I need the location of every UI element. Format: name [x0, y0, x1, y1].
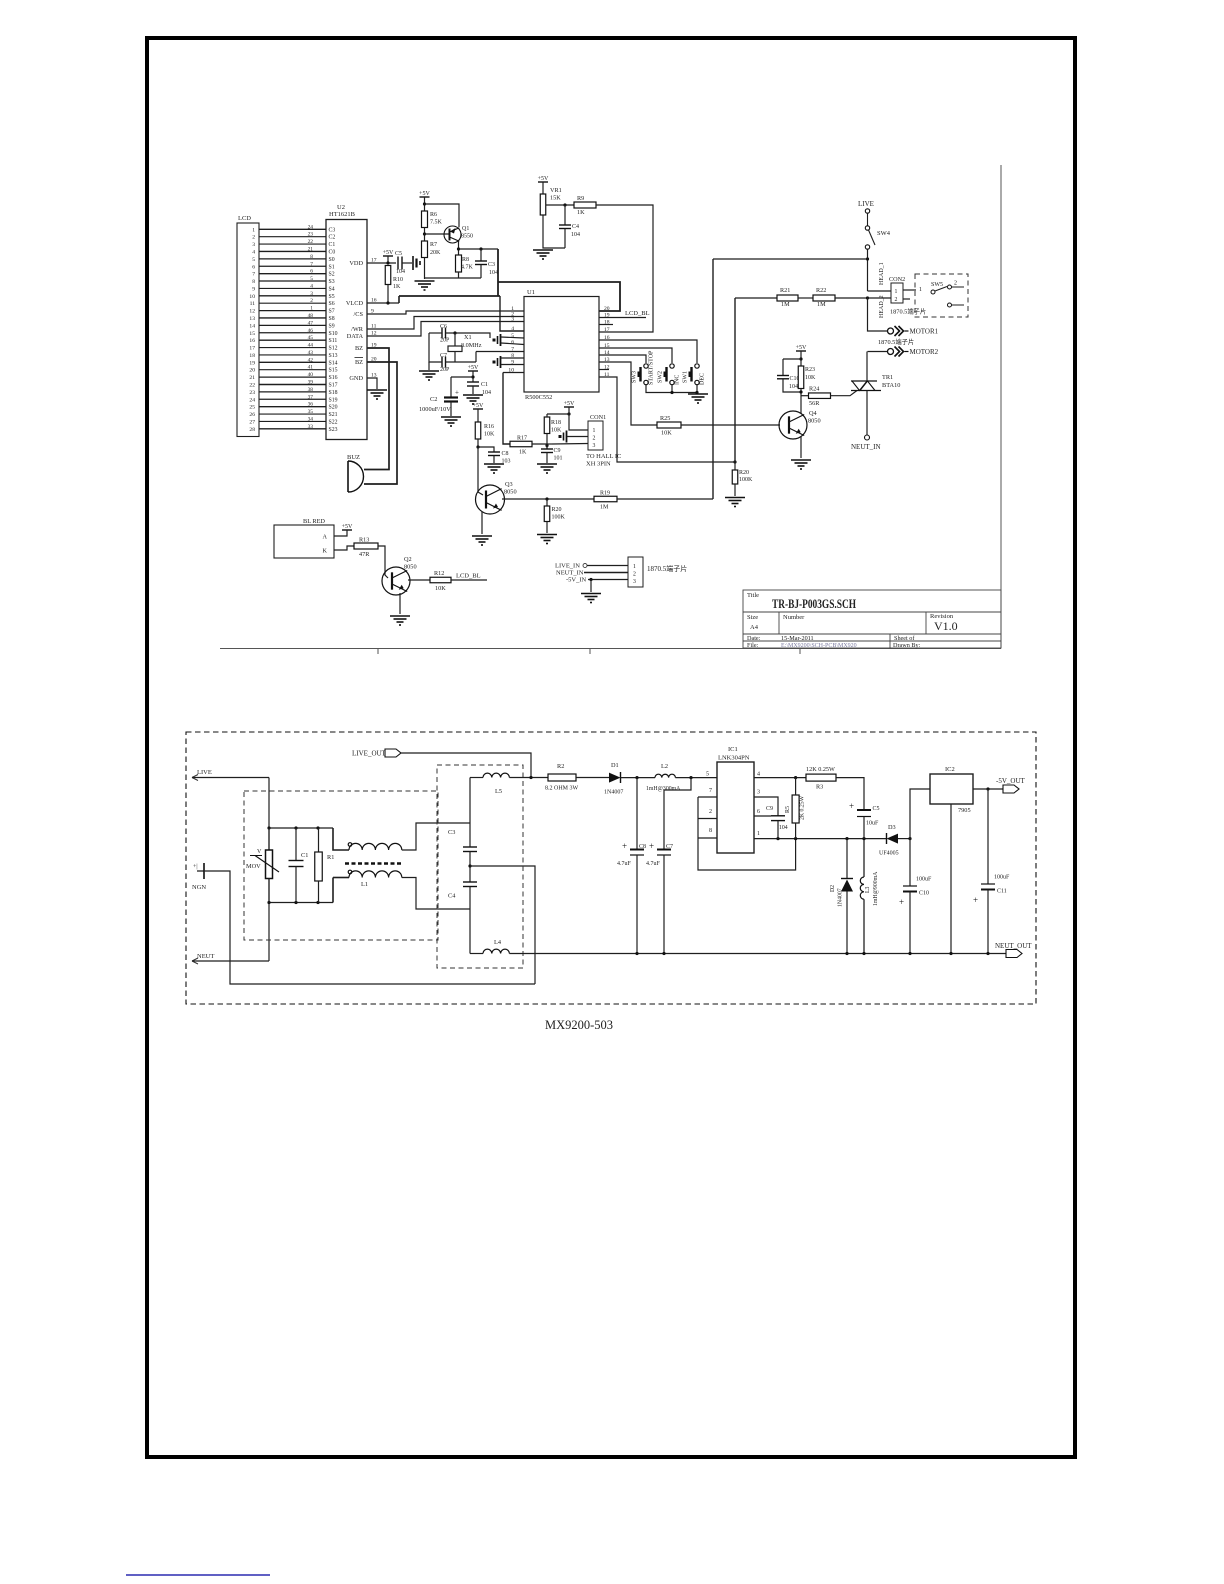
- wire NEUT_IN: [584, 572, 628, 574]
- svg-text:3: 3: [593, 443, 596, 449]
- wire Q1 out node: [459, 248, 499, 250]
- wire -5V_IN: [588, 579, 628, 581]
- svg-text:TR1: TR1: [882, 374, 893, 381]
- svg-text:MOTOR2: MOTOR2: [910, 348, 939, 356]
- terminal MOTOR1: [888, 326, 939, 336]
- wire C4 top: [564, 205, 566, 225]
- svg-text:24: 24: [308, 224, 314, 230]
- svg-text:S16: S16: [329, 375, 338, 381]
- svg-text:XH 3PIN: XH 3PIN: [586, 461, 611, 468]
- LCD pin 9 wire: [259, 287, 326, 289]
- svg-text:1K: 1K: [577, 209, 585, 216]
- resistor: [422, 241, 428, 258]
- wire: [402, 262, 412, 264]
- svg-text:100uF: 100uF: [916, 877, 932, 883]
- svg-text:5: 5: [310, 276, 313, 282]
- svg-text:D1: D1: [611, 762, 619, 769]
- svg-text:S19: S19: [329, 397, 338, 403]
- wire: [795, 778, 797, 795]
- svg-text:14: 14: [249, 323, 255, 329]
- resistor: [475, 422, 481, 439]
- wire switch common: [646, 385, 698, 393]
- wire: [493, 456, 495, 464]
- LCD pin 4 wire: [259, 250, 326, 252]
- svg-text:S23: S23: [329, 427, 338, 433]
- svg-text:SW2: SW2: [658, 371, 664, 383]
- svg-text:LCD: LCD: [238, 215, 251, 222]
- svg-text:11: 11: [250, 301, 256, 307]
- svg-text:39: 39: [308, 379, 314, 385]
- wire Q3 emitter: [481, 512, 483, 534]
- wire VR1 tap: [546, 204, 575, 206]
- svg-text:2: 2: [709, 809, 712, 815]
- +5V supply VR1: [538, 176, 549, 182]
- svg-text:File:: File:: [747, 642, 759, 649]
- wire R22 to CON2: [835, 297, 868, 299]
- svg-text:22: 22: [249, 382, 255, 388]
- svg-text:UF4005: UF4005: [879, 851, 899, 857]
- LCD pin 3 wire: [259, 243, 326, 245]
- svg-text:15: 15: [249, 331, 255, 337]
- svg-text:R20: R20: [739, 470, 749, 476]
- svg-text:S1: S1: [329, 264, 335, 270]
- LCD pin 23 wire: [259, 391, 326, 393]
- LCD pin 17 wire: [259, 347, 326, 349]
- +5V supply Q4: [796, 345, 807, 351]
- svg-text:S20: S20: [329, 405, 338, 411]
- svg-text:MOTOR1: MOTOR1: [910, 328, 939, 336]
- svg-text:1: 1: [633, 564, 636, 570]
- wire: [318, 881, 320, 903]
- svg-text:BTA10: BTA10: [882, 382, 900, 389]
- svg-text:S11: S11: [329, 338, 338, 344]
- wire C3 bottom: [480, 265, 482, 279]
- wire VLCD: [367, 302, 399, 304]
- svg-text:LIVE: LIVE: [197, 769, 212, 776]
- crystal X1 8.0MHz: [448, 346, 462, 352]
- svg-text:NGN: NGN: [192, 884, 206, 891]
- wire: [387, 256, 389, 263]
- svg-text:4.7uF: 4.7uF: [646, 861, 661, 867]
- ground switches: [688, 394, 708, 403]
- ground C1: [463, 395, 483, 404]
- LCD pin 20 wire: [259, 369, 326, 371]
- wire riser LIVE switch net: [712, 259, 714, 499]
- terminal NGN: [193, 863, 204, 879]
- wire LIVE riser: [268, 778, 270, 962]
- +5V supply VDD: [383, 250, 394, 256]
- wire: [898, 838, 910, 840]
- svg-text:7: 7: [310, 261, 313, 267]
- svg-text:1: 1: [919, 287, 922, 293]
- diode D3 UF4005: [887, 833, 899, 844]
- ground C8: [484, 464, 504, 473]
- wire R8 C3 return: [425, 277, 482, 279]
- wire: [621, 777, 656, 779]
- svg-text:10: 10: [249, 294, 255, 300]
- svg-text:C6: C6: [440, 324, 447, 330]
- resistor: [354, 543, 378, 549]
- wire U1 pin11 trunk: [599, 377, 735, 462]
- sheet border tick: [589, 649, 591, 655]
- svg-text:S3: S3: [329, 279, 335, 285]
- svg-text:+: +: [622, 841, 627, 851]
- svg-text:47R: 47R: [359, 551, 370, 558]
- connector LCD: [237, 223, 259, 437]
- svg-text:28: 28: [249, 427, 255, 433]
- wire to L1 bottom: [333, 877, 349, 879]
- ground R20b: [725, 498, 745, 507]
- sheet border tick: [377, 649, 379, 655]
- ground -5V_IN: [581, 594, 601, 603]
- XTAL2 pin symbol: [493, 356, 501, 368]
- LCD pin 14 wire: [259, 324, 326, 326]
- capacitor: [442, 357, 446, 368]
- wire: [472, 386, 474, 394]
- wire IC1 pin2: [698, 818, 717, 820]
- wire: [846, 892, 848, 954]
- wire to MOTOR1: [868, 299, 888, 332]
- svg-text:R23: R23: [805, 367, 815, 373]
- arrow NEUT: [192, 958, 198, 964]
- wire: [636, 855, 638, 954]
- svg-text:36: 36: [308, 402, 314, 408]
- wire NGN frame: [204, 871, 535, 984]
- svg-text:12: 12: [249, 309, 255, 315]
- +5V supply R16: [473, 403, 484, 409]
- svg-text:56R: 56R: [809, 400, 820, 407]
- svg-text:4: 4: [252, 249, 255, 255]
- wire feedback loop: [698, 797, 796, 870]
- svg-text:8: 8: [252, 279, 255, 285]
- svg-text:+5V: +5V: [342, 524, 353, 530]
- wire: [532, 444, 547, 449]
- svg-text:HEAD_1: HEAD_1: [879, 262, 885, 285]
- svg-text:R22: R22: [816, 287, 826, 294]
- capacitor C5 10uF: [849, 801, 871, 817]
- svg-text:+5V: +5V: [473, 403, 484, 409]
- title block: [743, 590, 1001, 648]
- wire: [332, 878, 334, 903]
- svg-text:LNK304PN: LNK304PN: [718, 755, 750, 762]
- svg-text:LIVE: LIVE: [858, 200, 874, 208]
- wire CON1 pin2: [567, 436, 588, 438]
- svg-text:L3: L3: [865, 886, 871, 893]
- svg-text:C7: C7: [666, 844, 673, 850]
- svg-text:4: 4: [757, 772, 760, 778]
- svg-text:Q2: Q2: [404, 556, 412, 563]
- wire SW4 to riser: [713, 258, 868, 260]
- wire: [546, 414, 548, 417]
- ground Q3: [472, 536, 492, 545]
- wire: [470, 777, 483, 779]
- svg-text:2: 2: [310, 298, 313, 304]
- svg-text:8.2 OHM 3W: 8.2 OHM 3W: [545, 786, 579, 792]
- wire CON2 pin2: [868, 297, 892, 299]
- capacitor: [559, 225, 571, 229]
- svg-text:33: 33: [308, 424, 314, 430]
- svg-text:C1: C1: [329, 242, 336, 248]
- LCD pin 8 wire: [259, 280, 326, 282]
- svg-text:43: 43: [308, 350, 314, 356]
- svg-text:104: 104: [396, 269, 405, 275]
- LCD pin 18 wire: [259, 354, 326, 356]
- svg-text:1M: 1M: [600, 505, 609, 511]
- svg-text:101: 101: [554, 456, 563, 462]
- wire to U1 pin4: [500, 296, 524, 331]
- svg-text:1K: 1K: [519, 450, 527, 456]
- wire: [734, 462, 736, 470]
- svg-text:A4: A4: [750, 624, 759, 631]
- svg-text:16: 16: [249, 338, 255, 344]
- svg-text:C5: C5: [873, 806, 880, 812]
- svg-text:TR-BJ-P003GS.SCH: TR-BJ-P003GS.SCH: [772, 597, 856, 611]
- svg-text:S18: S18: [329, 390, 338, 396]
- wire to U1 pin8: [501, 357, 524, 359]
- connector 1870.5 terminal: [628, 557, 643, 587]
- svg-text:IC2: IC2: [945, 766, 955, 773]
- svg-text:37: 37: [308, 394, 314, 400]
- wire: [576, 777, 609, 779]
- svg-text:R21: R21: [780, 287, 790, 294]
- svg-text:1M: 1M: [817, 301, 826, 308]
- wire: [477, 439, 479, 447]
- wire C7 tap: [664, 778, 691, 850]
- wire: [863, 817, 865, 839]
- wire: [903, 298, 910, 300]
- svg-text:LIVE_OUT: LIVE_OUT: [352, 750, 387, 758]
- LCD pin 25 wire: [259, 406, 326, 408]
- hall pin symbol: [559, 431, 567, 443]
- LCD pin 27 wire: [259, 420, 326, 422]
- svg-text:SW3: SW3: [632, 371, 638, 383]
- svg-text:R25: R25: [660, 415, 670, 422]
- wire VDD: [367, 262, 396, 264]
- svg-text:C2: C2: [329, 235, 336, 241]
- LCD pin 7 wire: [259, 273, 326, 275]
- svg-text:10uF: 10uF: [866, 821, 879, 827]
- svg-text:1870.5端子片: 1870.5端子片: [878, 337, 914, 346]
- svg-text:8550: 8550: [461, 234, 473, 240]
- svg-text:D3: D3: [888, 824, 896, 831]
- wire: [564, 229, 566, 249]
- svg-text:1: 1: [757, 831, 760, 837]
- svg-text:HEAD_2: HEAD_2: [879, 295, 885, 318]
- svg-text:21: 21: [308, 246, 314, 252]
- connector CON1: [588, 421, 603, 450]
- svg-text:U2: U2: [337, 204, 345, 211]
- inductor L3 1mH@900mA: [860, 839, 864, 954]
- wire: [424, 228, 426, 242]
- svg-text:34: 34: [308, 416, 314, 422]
- inductor L2 1mH@300mA: [655, 774, 675, 777]
- resistor: [792, 795, 799, 823]
- svg-text:S5: S5: [329, 294, 335, 300]
- svg-text:2K 0.25W: 2K 0.25W: [800, 795, 806, 820]
- wire to IC2 input: [910, 789, 930, 839]
- svg-text:+: +: [973, 895, 978, 905]
- resistor: [422, 211, 428, 228]
- svg-text:CON2: CON2: [889, 276, 905, 283]
- svg-text:25: 25: [249, 405, 255, 411]
- wire: [470, 953, 483, 955]
- wire: [546, 434, 548, 450]
- wire trunk: [399, 295, 500, 297]
- svg-text:10K: 10K: [805, 375, 816, 381]
- svg-text:R18: R18: [551, 420, 561, 426]
- LCD pin 26 wire: [259, 413, 326, 415]
- svg-text:L4: L4: [494, 939, 502, 946]
- wire to U1 pin6: [501, 343, 524, 345]
- svg-text:R8: R8: [462, 257, 469, 263]
- wire filter bottom rail: [269, 902, 333, 904]
- svg-text:R20: R20: [552, 507, 562, 513]
- ground C2: [441, 417, 461, 426]
- svg-text:START/STOP: START/STOP: [649, 350, 655, 385]
- capacitor: [442, 328, 446, 339]
- svg-text:1K: 1K: [393, 284, 401, 290]
- svg-text:MOV: MOV: [246, 863, 261, 870]
- wire L1 to C3: [402, 823, 470, 850]
- svg-text:C11: C11: [997, 889, 1007, 895]
- wire LCD_BL: [451, 579, 487, 581]
- resistor: [544, 506, 550, 522]
- wire Q1 base: [425, 233, 450, 235]
- svg-text:S17: S17: [329, 382, 338, 388]
- wire anode: [334, 530, 347, 536]
- ground Q1: [415, 281, 435, 290]
- wire: [795, 823, 797, 839]
- svg-text:E:\MX9200\SCH-PCB\MX920: E:\MX9200\SCH-PCB\MX920: [781, 643, 857, 649]
- svg-text:4.7uF: 4.7uF: [617, 861, 632, 867]
- svg-text:MX9200-503: MX9200-503: [545, 1018, 613, 1032]
- svg-text:44: 44: [308, 343, 314, 349]
- wire: [450, 402, 452, 417]
- svg-text:Q4: Q4: [809, 410, 818, 417]
- svg-text:BZ: BZ: [355, 345, 363, 352]
- wire midpoint to frame: [470, 866, 535, 984]
- svg-text:4.7K: 4.7K: [461, 265, 474, 271]
- svg-text:SW1: SW1: [683, 371, 689, 383]
- svg-text:-5V_OUT: -5V_OUT: [996, 777, 1025, 785]
- svg-text:Number: Number: [783, 614, 805, 621]
- wire to C8: [478, 447, 494, 452]
- svg-text:1870.5端子片: 1870.5端子片: [890, 307, 926, 316]
- +5V supply backlight: [342, 524, 353, 530]
- svg-text:15K: 15K: [550, 195, 561, 202]
- svg-text:C10: C10: [919, 891, 929, 897]
- svg-text:S10: S10: [329, 331, 338, 337]
- svg-text:SW5: SW5: [931, 282, 943, 288]
- svg-text:3: 3: [310, 291, 313, 297]
- svg-text:C4: C4: [572, 224, 579, 230]
- svg-text:S21: S21: [329, 412, 338, 418]
- svg-text:19: 19: [249, 360, 255, 366]
- svg-text:S12: S12: [329, 346, 338, 352]
- switch SW3 START/STOP: [638, 364, 649, 385]
- svg-text:C3: C3: [329, 227, 336, 233]
- svg-text:LIVE_IN: LIVE_IN: [555, 563, 580, 570]
- resistor: [430, 577, 451, 583]
- wire LIVE in: [192, 777, 269, 779]
- wire to L1 top: [333, 828, 349, 850]
- wire R9 to U1 pin17: [596, 205, 653, 332]
- wire MOTOR2: [868, 351, 888, 353]
- svg-text:NEUT: NEUT: [197, 953, 214, 960]
- svg-text:1: 1: [310, 306, 313, 312]
- wire R10 to VLCD: [387, 285, 389, 304]
- wire: [429, 332, 442, 334]
- svg-text:R7: R7: [430, 242, 437, 248]
- svg-text:9: 9: [252, 286, 255, 292]
- svg-text:/CS: /CS: [354, 311, 364, 318]
- connector BL RED backlight: [274, 525, 334, 558]
- svg-text:7: 7: [709, 788, 712, 794]
- svg-text:R13: R13: [359, 537, 369, 544]
- wire to R21: [735, 297, 777, 299]
- wire: [428, 362, 430, 370]
- svg-text:1: 1: [593, 428, 596, 434]
- capacitor: [463, 882, 477, 887]
- svg-text:D2: D2: [830, 885, 836, 892]
- capacitor: [475, 261, 487, 265]
- transistor Q3 8050: [476, 485, 505, 514]
- capacitor: [541, 449, 553, 453]
- svg-text:1000uF/10V: 1000uF/10V: [419, 406, 451, 413]
- connector CON2: [891, 283, 903, 303]
- svg-text:LCD_BL: LCD_BL: [625, 310, 650, 317]
- wire IC1 pin1 output: [754, 838, 886, 840]
- svg-text:+|: +|: [193, 864, 198, 870]
- svg-text:NEUT_IN: NEUT_IN: [556, 570, 584, 577]
- svg-text:C8: C8: [502, 451, 509, 457]
- svg-text:5: 5: [706, 772, 709, 778]
- resistor: [548, 774, 576, 781]
- wire: [469, 887, 471, 910]
- svg-text:3: 3: [757, 790, 760, 796]
- wire: [477, 409, 479, 422]
- wire U2 GND: [367, 378, 377, 389]
- wire: [987, 890, 989, 954]
- LCD pin 2 wire: [259, 236, 326, 238]
- wire Q1 emitter feed: [425, 204, 460, 227]
- svg-text:10K: 10K: [484, 432, 495, 438]
- wire: [268, 879, 270, 903]
- svg-text:Date:: Date:: [747, 635, 761, 642]
- resistor: [544, 417, 550, 434]
- U2 BZ-bar overline: [355, 357, 364, 359]
- no-connect circle: [583, 564, 587, 568]
- svg-text:K: K: [323, 548, 328, 555]
- IC1 LNK304PN: [717, 762, 754, 853]
- sheet bottom border: [220, 648, 1001, 650]
- svg-text:BUZ: BUZ: [347, 454, 360, 461]
- resistor: [732, 470, 738, 484]
- svg-text:10K: 10K: [551, 428, 562, 434]
- svg-text:S14: S14: [329, 360, 338, 366]
- svg-text:46: 46: [308, 328, 314, 334]
- sheet right border: [1000, 165, 1002, 649]
- svg-text:C8: C8: [639, 844, 646, 850]
- ground crystal: [419, 371, 439, 380]
- wire TR1 to NEUT_IN: [866, 391, 868, 436]
- svg-text:6: 6: [757, 809, 760, 815]
- wire DATA net to U1 pin3: [367, 322, 524, 337]
- wire R19 to riser: [617, 498, 713, 500]
- svg-text:104: 104: [779, 825, 788, 831]
- svg-text:A: A: [323, 534, 328, 541]
- XTAL1 pin symbol: [493, 334, 501, 346]
